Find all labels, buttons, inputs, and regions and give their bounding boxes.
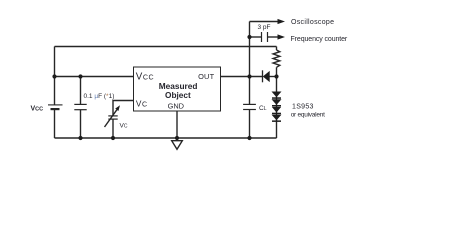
svg-text:Frequency counter: Frequency counter (291, 36, 348, 43)
svg-text:Object: Object (165, 90, 191, 100)
svg-text:or equivalent: or equivalent (291, 112, 325, 119)
svg-text:CL: CL (259, 105, 267, 112)
svg-text:OUT: OUT (198, 72, 214, 81)
svg-text:GND: GND (168, 101, 184, 110)
svg-text:Oscilloscope: Oscilloscope (291, 19, 334, 26)
svg-text:VC: VC (120, 122, 128, 129)
svg-text:0.1 µF (*1): 0.1 µF (*1) (84, 93, 115, 100)
svg-text:VCC: VCC (31, 106, 44, 113)
svg-text:3 pF: 3 pF (258, 24, 271, 31)
svg-text:VCC: VCC (136, 72, 155, 83)
svg-text:1S953: 1S953 (292, 104, 314, 111)
